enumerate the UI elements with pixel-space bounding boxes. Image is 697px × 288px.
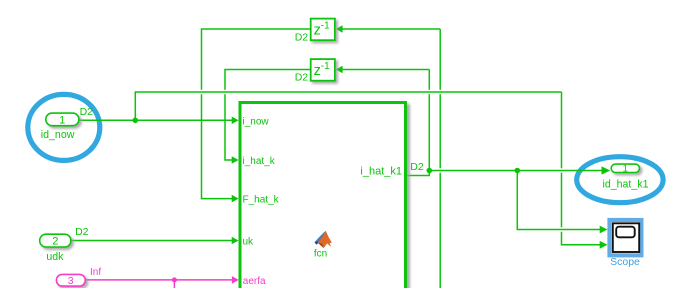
arrowhead into fcn uk [232,237,239,245]
wire: port1 to fcn i_now [80,119,234,121]
wire: feedback into Unit Delay 1 vertical x=440.2 [342,28,441,30]
arrowhead into Scope input 1 [600,226,608,234]
wire: id_now branch horizontal top bus y=92 [135,92,561,120]
svg-text:z: z [314,63,321,79]
svg-text:i_now: i_now [243,116,270,127]
svg-text:1: 1 [623,164,628,175]
MATLAB Function block fcn [240,103,406,288]
svg-text:Inf: Inf [90,267,101,278]
svg-text:D2: D2 [295,72,309,84]
wire: id_now to Scope input 2 vertical x=561.5 with crossing gaps [561,92,563,168]
svg-text:D2: D2 [410,161,424,173]
svg-text:udk: udk [46,251,64,263]
outport block 1 id_hat_k1 [611,164,639,172]
svg-text:i_hat_k1: i_hat_k1 [360,166,402,178]
svg-text:fcn: fcn [314,249,327,260]
selection highlight ellipse around output port id_hat_k1 [577,157,663,203]
arrowhead into fcn i_now [232,117,239,125]
svg-text:2: 2 [52,236,58,248]
wire: i_hat_k1 main run to output port [429,170,604,172]
inport block 1 id_now [46,113,79,126]
svg-text:aerfa: aerfa [243,276,266,287]
wire: feedback into Unit Delay 2 vertical x=429.3 [342,69,430,71]
MATLAB logo icon [315,231,326,245]
arrowhead into Unit Delay 1 [336,25,343,33]
arrowhead into Unit Delay 2 [336,66,343,74]
scope block icon [613,223,639,252]
unit delay block 1 z^-1 [311,19,335,41]
junction J2 [427,168,433,174]
svg-text:D2: D2 [80,106,94,118]
svg-text:i_hat_k: i_hat_k [243,156,276,167]
svg-text:id_now: id_now [41,129,75,141]
svg-text:Scope: Scope [610,256,640,268]
wire: udk to fcn uk [72,240,234,242]
wire: Unit Delay 2 output to fcn i_hat_k [225,70,310,90]
svg-text:D2: D2 [295,31,309,43]
svg-text:1: 1 [59,115,65,127]
svg-text:-1: -1 [321,61,330,72]
svg-text:F_hat_k: F_hat_k [243,195,280,206]
svg-text:D2: D2 [75,226,89,238]
arrowhead into output port id_hat_k1 [602,166,611,174]
selection highlight circle around input port id_now [28,94,100,160]
wire: magenta stub down [173,280,175,288]
svg-text:3: 3 [68,275,74,287]
scope screen [616,227,635,238]
arrowhead into Scope input 2 [600,241,608,249]
svg-text:uk: uk [243,237,255,248]
arrowhead into fcn aerfa magenta [232,276,239,284]
scope block selection frame [607,218,643,258]
inport block 3 (magenta) [56,274,85,286]
svg-text:id_hat_k1: id_hat_k1 [603,178,649,190]
unit delay block 2 z^-1 [311,59,335,81]
arrowhead into fcn i_hat_k [232,156,239,164]
svg-text:z: z [314,22,321,38]
wire: Unit Delay 1 output to fcn F_hat_k [202,29,311,90]
wire: fcn output i_hat_k1 jog [407,171,429,176]
wire: i_hat_k1 branch to Scope input 1 [517,171,601,230]
svg-text:-1: -1 [321,20,330,31]
junction J4 magenta [172,277,177,282]
junction J3 [515,168,521,174]
junction J1 on id_now net [133,118,139,124]
wire: aerfa net magenta [86,279,234,281]
arrowhead into fcn F_hat_k [232,195,239,203]
inport block 2 udk [40,234,71,247]
